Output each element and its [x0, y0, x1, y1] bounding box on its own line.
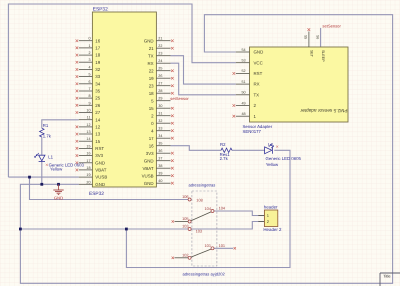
svg-text:23: 23	[149, 83, 154, 88]
wire LED L1 cathode down to GND row	[41, 162, 43, 184]
wire switch pin 104 to header pin 1	[214, 211, 265, 216]
svg-text:32: 32	[95, 67, 100, 72]
svg-text:18: 18	[86, 166, 90, 170]
svg-text:VBAT: VBAT	[95, 168, 106, 173]
svg-text:ESP32: ESP32	[89, 191, 104, 197]
pin 12 (12)	[79, 126, 93, 128]
svg-text:VUSB: VUSB	[95, 175, 107, 180]
pin 53 (VCC)	[236, 62, 250, 64]
svg-text:19: 19	[95, 60, 100, 65]
svg-text:25: 25	[95, 96, 100, 101]
resistor R1 1.7k	[40, 123, 52, 139]
svg-text:GND: GND	[144, 181, 154, 186]
svg-text:24: 24	[158, 59, 162, 63]
pin 4 (32)	[79, 68, 93, 70]
svg-text:10: 10	[86, 109, 90, 113]
svg-text:12: 12	[86, 123, 90, 127]
wire SLEEP pin to setSensor label	[320, 28, 322, 47]
pin 0 (16)	[79, 40, 93, 42]
pin 37 (GND)	[156, 160, 170, 162]
wire GND branch to switch pin 103 row	[20, 228, 188, 230]
pin 3 (19)	[79, 61, 93, 63]
svg-text:101: 101	[219, 243, 226, 248]
svg-text:1: 1	[88, 44, 90, 48]
svg-text:39: 39	[158, 172, 162, 176]
svg-text:Header 2: Header 2	[263, 227, 282, 232]
wire ESP32 RX to PM2.5 TX	[171, 63, 236, 95]
pin 106 contact	[188, 198, 191, 201]
svg-text:15: 15	[95, 139, 100, 144]
svg-text:37: 37	[158, 157, 162, 161]
svg-text:GND: GND	[144, 38, 154, 43]
svg-text:27: 27	[158, 82, 162, 86]
pin 102 contact and blade to 101	[175, 257, 189, 259]
pin 105 contact and blade to 104	[175, 221, 189, 223]
svg-text:ESP32: ESP32	[93, 6, 108, 12]
svg-text:17: 17	[95, 46, 100, 51]
svg-text:3: 3	[88, 58, 90, 62]
svg-text:22: 22	[158, 44, 162, 48]
pin 38 (VBAT)	[156, 167, 170, 169]
svg-text:20: 20	[86, 180, 90, 184]
svg-text:TX: TX	[254, 92, 260, 97]
svg-text:2: 2	[88, 51, 90, 55]
pin 54 (GND)	[236, 51, 250, 53]
pin 8 (25)	[79, 97, 93, 99]
IC U1 ESP32 module	[76, 6, 174, 196]
svg-text:Yellow: Yellow	[266, 162, 279, 167]
pin 13 (13)	[79, 133, 93, 135]
svg-text:SEN0177: SEN0177	[243, 129, 262, 134]
svg-text:36: 36	[158, 149, 162, 153]
IC U2 PM2.5 sensor adapter SEN0177	[233, 28, 349, 134]
wire ESP32 TX to PM2.5 RX	[171, 56, 236, 84]
svg-text:R1: R1	[43, 123, 49, 128]
pin 50 (TX)	[236, 94, 250, 96]
pin 27 (23)	[156, 85, 170, 87]
svg-text:52: 52	[241, 69, 245, 73]
svg-text:40: 40	[158, 179, 162, 183]
svg-text:28: 28	[158, 89, 162, 93]
pin 15 (RST)	[79, 147, 93, 149]
pin 11 (14)	[79, 119, 93, 121]
svg-text:35: 35	[95, 89, 100, 94]
svg-text:3V3: 3V3	[146, 151, 154, 156]
svg-text:11: 11	[87, 116, 91, 120]
svg-text:55: 55	[304, 35, 308, 39]
pin 25 (22)	[156, 70, 170, 72]
pin 29 (5)	[156, 100, 170, 102]
pin 30 (15)	[156, 107, 170, 109]
svg-text:13: 13	[95, 132, 100, 137]
svg-text:105: 105	[182, 216, 189, 221]
svg-text:SLEEP: SLEEP	[321, 50, 325, 62]
svg-text:53: 53	[241, 59, 245, 63]
svg-text:16: 16	[86, 152, 90, 156]
svg-text:R2: R2	[220, 142, 226, 147]
svg-text:setSensor: setSensor	[170, 96, 189, 101]
svg-text:108: 108	[196, 197, 203, 202]
svg-text:103: 103	[182, 224, 189, 229]
wire VUSB net: left edge + top run to PM2.5 VCC	[8, 4, 235, 177]
svg-text:adressingetras: adressingetras	[189, 183, 216, 188]
pin 16 (3V3)	[79, 155, 93, 157]
svg-text:31: 31	[158, 112, 162, 116]
svg-text:9: 9	[88, 101, 90, 105]
pin 55 (SET)	[308, 32, 310, 48]
svg-text:22: 22	[149, 68, 154, 73]
svg-text:15: 15	[149, 106, 154, 111]
svg-text:VBAT: VBAT	[142, 166, 153, 171]
pin 6 (34)	[79, 83, 93, 85]
pin 18 (VBAT)	[79, 169, 93, 171]
wire LED L2 return: junction down, along bottom, up to LED cathode	[126, 150, 290, 267]
svg-text:103: 103	[196, 229, 203, 234]
svg-text:18: 18	[95, 53, 100, 58]
pin 21 (GND)	[156, 40, 170, 42]
title block (sheet border corner)	[380, 273, 400, 286]
pin 1 (17)	[79, 47, 93, 49]
svg-text:4: 4	[88, 65, 90, 69]
svg-text:51: 51	[241, 80, 245, 84]
pin 17 (GND)	[79, 162, 93, 164]
svg-text:14: 14	[86, 137, 90, 141]
svg-text:16: 16	[149, 143, 154, 148]
pin 28 (18)	[156, 92, 170, 94]
pin 10 (27)	[79, 112, 93, 114]
svg-text:RX: RX	[147, 61, 153, 66]
junction LED L1 on GND row	[40, 183, 43, 186]
pin 9 (26)	[79, 104, 93, 106]
svg-text:106: 106	[182, 194, 189, 199]
resistor R2 Res1 2.7k	[220, 142, 232, 161]
svg-text:49: 49	[241, 101, 245, 105]
svg-text:50: 50	[241, 91, 245, 95]
wire ESP32 GPIO16 to resistor R2	[171, 146, 222, 151]
svg-text:GND: GND	[144, 158, 154, 163]
pin 5 (33)	[79, 76, 93, 78]
svg-text:13: 13	[86, 130, 90, 134]
svg-text:19: 19	[86, 173, 90, 177]
svg-text:Generic LED 0805: Generic LED 0805	[266, 156, 302, 161]
svg-text:104: 104	[219, 206, 226, 211]
wire VUSB row to ESP32 pin 19	[8, 176, 78, 178]
svg-text:27: 27	[95, 110, 100, 115]
pin 14 (15)	[79, 140, 93, 142]
svg-text:21: 21	[149, 46, 154, 51]
pin 20 (GND)	[79, 183, 93, 185]
svg-text:32: 32	[158, 119, 162, 123]
svg-text:101: 101	[205, 243, 212, 248]
svg-text:33: 33	[158, 127, 162, 131]
pin 48 (1)	[236, 115, 250, 117]
wire R2 to LED L2 anode	[232, 149, 265, 151]
pin 2	[258, 221, 264, 223]
pin 7 (35)	[79, 90, 93, 92]
svg-text:L1: L1	[48, 155, 53, 160]
pin 24 (RX)	[156, 62, 170, 64]
svg-text:Title: Title	[383, 274, 390, 279]
pin 31 (2)	[156, 115, 170, 117]
svg-text:6: 6	[88, 80, 90, 84]
svg-text:102: 102	[182, 253, 189, 258]
svg-text:GND: GND	[254, 50, 264, 55]
LED L1 Generic LED 0603 Yellow	[35, 153, 85, 172]
svg-text:RX: RX	[254, 82, 260, 87]
svg-text:15: 15	[86, 144, 90, 148]
svg-text:23: 23	[158, 52, 162, 56]
svg-text:GND: GND	[95, 160, 105, 165]
svg-text:17: 17	[149, 136, 154, 141]
svg-text:5: 5	[88, 73, 90, 77]
pin 39 (VUSB)	[156, 175, 170, 177]
svg-text:35: 35	[158, 142, 162, 146]
pin 34 (17)	[156, 137, 170, 139]
LED L2 Generic LED 0805 Yellow	[265, 142, 302, 167]
pin 51 (RX)	[236, 83, 250, 85]
svg-text:18: 18	[149, 91, 154, 96]
wire VUSB branch down to switch pin 106	[30, 177, 189, 199]
svg-text:L2: L2	[268, 142, 273, 147]
svg-text:34: 34	[95, 81, 100, 86]
pin 33 (4)	[156, 130, 170, 132]
svg-text:48: 48	[241, 112, 245, 116]
pin 52 (RST)	[236, 72, 250, 74]
pin 19 (VUSB)	[79, 176, 93, 178]
svg-text:16: 16	[95, 38, 100, 43]
svg-text:26: 26	[95, 103, 100, 108]
svg-text:2.7k: 2.7k	[220, 156, 229, 161]
pin 23 (TX)	[156, 55, 170, 57]
pin 22 (21)	[156, 47, 170, 49]
ground GND power symbol	[53, 184, 63, 200]
svg-text:34: 34	[158, 134, 162, 138]
junction GND symbol stem	[57, 183, 60, 186]
svg-text:38: 38	[158, 164, 162, 168]
svg-text:30: 30	[158, 104, 162, 108]
svg-text:RST: RST	[95, 146, 104, 151]
svg-text:adressingetras ayjd202: adressingetras ayjd202	[183, 271, 226, 276]
svg-text:setSensor: setSensor	[322, 24, 341, 29]
svg-text:PM2.5 sensor adapter: PM2.5 sensor adapter	[300, 107, 348, 113]
junction VUSB branch	[28, 176, 31, 179]
pin 35 (16)	[156, 145, 170, 147]
svg-text:Yellow: Yellow	[50, 167, 63, 172]
svg-text:25: 25	[158, 67, 162, 71]
svg-text:TX: TX	[148, 53, 154, 58]
wire switch 103 row to header pin 2	[191, 222, 264, 230]
pin 49 (2)	[236, 105, 250, 107]
svg-text:GND: GND	[95, 182, 105, 187]
svg-text:3V3: 3V3	[95, 153, 103, 158]
svg-text:8: 8	[88, 94, 90, 98]
svg-text:SET: SET	[309, 50, 313, 58]
svg-text:29: 29	[158, 97, 162, 101]
junction GND branch left	[19, 228, 22, 231]
pin 32 (0)	[156, 122, 170, 124]
pin 40 (GND)	[156, 182, 170, 184]
relay K1 adressingetras aqyd202 (dashed body)	[172, 183, 236, 277]
pin 103 contact	[188, 228, 191, 231]
wire ESP32 GPIO14 to resistor R1	[42, 120, 79, 128]
svg-text:12: 12	[95, 125, 100, 130]
junction L2 return on GND row	[125, 228, 128, 231]
svg-text:1.7k: 1.7k	[43, 134, 52, 139]
svg-text:RST: RST	[254, 71, 263, 76]
svg-text:GND: GND	[54, 196, 63, 201]
svg-text:33: 33	[95, 74, 100, 79]
pin 36 (3V3)	[156, 152, 170, 154]
svg-text:54: 54	[241, 48, 245, 52]
svg-text:21: 21	[158, 37, 162, 41]
svg-text:0: 0	[88, 37, 90, 41]
svg-text:26: 26	[158, 74, 162, 78]
svg-text:Sensor Adapter: Sensor Adapter	[243, 124, 273, 129]
svg-text:VCC: VCC	[254, 60, 263, 65]
svg-text:19: 19	[149, 76, 154, 81]
wire switch pin 101 stub right	[214, 247, 233, 249]
pin 26 (19)	[156, 77, 170, 79]
pin 2 (18)	[79, 54, 93, 56]
svg-text:104: 104	[205, 206, 212, 211]
svg-text:56: 56	[315, 35, 319, 39]
svg-text:7: 7	[88, 87, 90, 91]
svg-text:VUSB: VUSB	[142, 173, 154, 178]
svg-text:17: 17	[86, 159, 90, 163]
connector J1 Header 2	[258, 204, 282, 232]
pin 1	[258, 215, 264, 217]
svg-text:14: 14	[95, 117, 100, 122]
wire R1 to LED L1	[41, 137, 43, 155]
svg-text:header: header	[264, 204, 278, 209]
